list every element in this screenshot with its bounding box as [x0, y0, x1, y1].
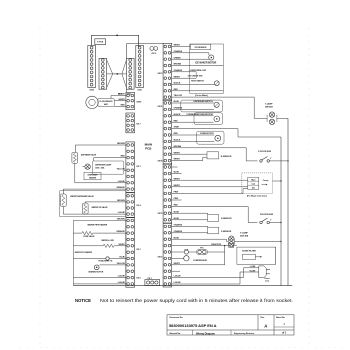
svg-text:Not to reinsert the power supp: Not to reinsert the power supply cord wi… — [100, 298, 293, 303]
wire WHITE flow sensor — [114, 99, 126, 101]
motor ice maker motor — [195, 55, 217, 65]
svg-text:DISPENSER: DISPENSER — [88, 175, 99, 177]
wire RED flow sensor — [114, 105, 126, 107]
svg-text:DISPENSER VALVE: DISPENSER VALVE — [81, 154, 97, 157]
resistor water in heater — [73, 244, 126, 247]
dispenser heater — [84, 172, 101, 180]
svg-text:WATER In S/W: WATER In S/W — [101, 239, 114, 242]
motor geared motor — [88, 265, 126, 274]
svg-text:HORIZONTAL S/W: HORIZONTAL S/W — [189, 69, 206, 72]
dispenser switch — [172, 100, 223, 112]
left spine wire colour labels — [116, 143, 125, 284]
svg-text:ORANGE: ORANGE — [174, 69, 183, 72]
label water in switch — [101, 239, 114, 242]
svg-text:FLOW SENSOR: FLOW SENSOR — [100, 101, 113, 103]
wire GRAY to f-door switch bus — [172, 129, 281, 137]
svg-text:F-LAMP: F-LAMP — [240, 232, 248, 235]
svg-text:DISPENSER SWITCH: DISPENSER SWITCH — [193, 101, 213, 103]
wire BROWN to f-door switch — [172, 148, 258, 161]
svg-text:GEARED MOTOR: GEARED MOTOR — [88, 270, 104, 273]
noise filter — [237, 247, 276, 264]
svg-text:CN31: CN31 — [137, 90, 141, 92]
svg-text:CONDENSER FAN MOTOR: CONDENSER FAN MOTOR — [186, 113, 213, 116]
wire ORANGE horizontal switch — [172, 71, 197, 73]
svg-text:DEFROST HEATER: DEFROST HEATER — [75, 251, 93, 254]
f-sensor — [172, 226, 232, 233]
svg-text:Rev.: Rev. — [261, 317, 266, 319]
svg-text:220V 2EA: 220V 2EA — [240, 235, 249, 238]
wire RED dispenser lamp feed — [94, 158, 126, 161]
d-sensor — [172, 213, 232, 221]
motor compressor — [172, 256, 208, 263]
solenoid water ice valve — [82, 203, 108, 214]
svg-text:PCB: PCB — [145, 147, 152, 151]
svg-text:HEATER: HEATER — [89, 176, 97, 179]
wire BROWN water ice valve feed — [85, 202, 126, 203]
wire harness bowtie AK1 to CN51 — [107, 60, 127, 88]
main pcb label — [145, 142, 153, 150]
heater group box — [73, 220, 126, 285]
svg-text:BLACK: BLACK — [174, 82, 181, 85]
switch r-door switch — [260, 214, 282, 224]
r-sensor — [172, 152, 232, 161]
svg-text:ORANGE: ORANGE — [116, 230, 125, 233]
wire WHITE ice sensor — [172, 46, 191, 48]
magic cool zone box — [242, 173, 282, 198]
svg-text:T-LAMP: T-LAMP — [265, 103, 273, 106]
svg-text:WATER DISPENSER VALVE: WATER DISPENSER VALVE — [70, 195, 94, 198]
wire L-BLUE water valves return — [63, 207, 126, 215]
svg-text:Cord: Cord — [265, 280, 269, 282]
label water pipe heater — [87, 223, 107, 226]
wire capacitor drop — [224, 245, 225, 265]
wire bus right outer — [287, 118, 289, 285]
wire BROWN dispenser valve feed — [75, 145, 126, 152]
label core valve — [83, 235, 95, 238]
wires to magic cool zone — [172, 180, 248, 193]
label CN6 — [136, 277, 141, 279]
wire RED to r-door switch — [172, 207, 258, 223]
wire stub PINK CN75 pin6 — [172, 199, 182, 201]
svg-text:ORANGE: ORANGE — [174, 230, 183, 233]
label ice check switch — [188, 75, 203, 77]
svg-text:WATER PIPE HEATER: WATER PIPE HEATER — [87, 223, 107, 226]
svg-text:BLACK: BLACK — [174, 113, 181, 116]
wire L-LINE — [244, 266, 259, 268]
wire bus right inner — [280, 137, 282, 286]
t-lamp — [254, 103, 288, 125]
wire YELLOW lamp feed — [172, 97, 255, 118]
svg-text:WATER ICE VALVE: WATER ICE VALVE — [92, 206, 109, 209]
connector CN2 on main pcb — [126, 218, 135, 288]
wire L-BLUE heater return 1 — [73, 277, 126, 279]
resistor water pipe heater — [73, 231, 126, 234]
svg-text:WHITE: WHITE — [119, 99, 126, 101]
overload protector OLP — [184, 250, 196, 255]
svg-text:GRAY: GRAY — [174, 126, 180, 129]
svg-text:Document No.: Document No. — [170, 316, 184, 319]
connector AK1 inner-left column — [99, 58, 122, 95]
svg-text:5830000133975 ASP EN A: 5830000133975 ASP EN A — [169, 323, 217, 328]
svg-text:A: A — [264, 324, 267, 329]
wire noise filter right drop — [275, 247, 277, 264]
svg-text:D-SENSOR: D-SENSOR — [221, 218, 232, 220]
label horizontal switch — [189, 69, 206, 72]
water valve group box — [60, 191, 126, 217]
wire WHITE ice check switch — [172, 72, 197, 78]
wire WHITE compressor return — [172, 264, 225, 266]
wire ORANGE ice maker motor — [172, 53, 209, 55]
power cord plug — [259, 266, 270, 282]
wire ORANGE water dispenser valve feed — [63, 189, 126, 194]
connector CN3 on main pcb — [126, 142, 142, 193]
ice maker assembly box — [190, 44, 224, 97]
wire CN51 to CN90 — [125, 89, 127, 92]
connector CN72 on main pcb — [157, 223, 171, 287]
motor r-fan motor — [172, 131, 224, 144]
svg-text:ICE MAKER MOTOR: ICE MAKER MOTOR — [195, 61, 217, 64]
connector CN1 — [145, 278, 160, 286]
motor condenser fan motor — [172, 113, 223, 125]
svg-text:BLACK: BLACK — [174, 139, 181, 142]
wire N-LINE — [244, 270, 259, 272]
title block — [167, 315, 294, 336]
wire GREEN ice maker motor — [172, 58, 209, 60]
front pcb label — [95, 39, 106, 45]
svg-text:(For Ice Maker): (For Ice Maker) — [195, 95, 208, 97]
connector CN75 on main pcb — [157, 164, 171, 223]
solenoid water dispenser valve — [60, 194, 94, 207]
wire BLACK flow sensor — [111, 93, 126, 99]
wire L-BLUE heater return 2 — [73, 283, 126, 285]
wire BROWN ice maker common — [172, 65, 224, 67]
svg-text:Wiring Diagram: Wiring Diagram — [196, 331, 216, 335]
svg-text:ORANGE: ORANGE — [174, 50, 183, 53]
svg-text:CORE VALVE: CORE VALVE — [83, 235, 95, 238]
solenoid dispenser valve — [72, 152, 97, 163]
svg-text:Compr: Compr — [263, 180, 269, 182]
svg-text:NOTICE: NOTICE — [75, 298, 91, 303]
dispenser lamp box — [93, 161, 124, 174]
connector CN90 (flow sensor) on main pcb — [126, 92, 142, 109]
lamp f-lamp — [226, 232, 281, 247]
wire dispenser valve return — [74, 163, 76, 182]
connector CN70 on main pcb — [157, 43, 171, 100]
svg-text:RED: RED — [121, 105, 126, 107]
flow sensor — [86, 96, 114, 108]
svg-text:CN 11: CN 11 — [151, 53, 156, 55]
right spine wire colour labels — [174, 45, 183, 285]
svg-text:ORANGE: ORANGE — [174, 224, 183, 227]
svg-text:TEST SWITCH: TEST SWITCH — [191, 81, 205, 83]
svg-text:15W x 1EA: 15W x 1EA — [95, 167, 105, 170]
svg-text:NOISE FILTER: NOISE FILTER — [242, 251, 256, 253]
notice text — [75, 298, 293, 303]
connector CN51 inner-right column — [126, 58, 134, 95]
connector CN11 2-pin — [150, 47, 158, 55]
svg-text:(For Magic Cool Zone): (For Magic Cool Zone) — [247, 195, 267, 197]
svg-text:ICE SENSOR: ICE SENSOR — [195, 47, 207, 49]
svg-text:F-PCB: F-PCB — [97, 42, 103, 44]
wire L-BLUE dispenser return — [75, 182, 126, 184]
label CN2 — [136, 249, 141, 251]
connector CN7 on main pcb — [126, 113, 142, 133]
wire BLUE f-lamp feed — [172, 239, 227, 241]
wire compressor run — [172, 251, 185, 253]
svg-text:Cool: Cool — [252, 183, 256, 185]
svg-text:F-SENSOR: F-SENSOR — [221, 231, 232, 233]
connector CN31 front-pcb outer-right column — [136, 46, 144, 92]
wire bottom rail — [74, 285, 292, 287]
label CN74 — [157, 160, 163, 163]
wire RED ice maker — [172, 90, 224, 92]
svg-text:R-DOOR S/W: R-DOOR S/W — [260, 214, 274, 216]
svg-text:Wiper: Wiper — [251, 179, 256, 181]
ptc relay — [196, 247, 224, 254]
svg-text:Sheet No.: Sheet No. — [276, 316, 286, 319]
wire stub CN72 pin8 — [172, 270, 180, 272]
lamp dispenser lamp — [82, 164, 112, 170]
connector CN30 front-pcb outer-left column — [88, 46, 96, 92]
svg-text:N-LINE: N-LINE — [250, 270, 256, 272]
svg-text:R-FAN MOTOR: R-FAN MOTOR — [200, 132, 214, 135]
wire top loop front-pcb to CN31 — [92, 34, 139, 47]
svg-text:20W 2EA: 20W 2EA — [265, 106, 273, 109]
wire CN31 to main pcb CN70 — [127, 44, 164, 59]
svg-text:ICE CHECK S/W: ICE CHECK S/W — [188, 75, 203, 77]
svg-text:ORANGE: ORANGE — [116, 186, 125, 189]
svg-text:ORANGE: ORANGE — [174, 107, 183, 110]
connector CN4 on main pcb — [126, 193, 142, 218]
fuse temp — [73, 257, 126, 263]
svg-text:BLACK: BLACK — [118, 93, 125, 96]
wire YELLOW dispenser lamp — [124, 169, 126, 171]
wire stub BLUE CN75 pin2 — [172, 173, 182, 175]
switch test switch — [191, 81, 219, 86]
wire stub CN75 pin1 — [172, 166, 178, 168]
svg-text:Engineering Revision: Engineering Revision — [234, 332, 255, 335]
connector CN76 on main pcb — [157, 100, 171, 164]
svg-text:F-DOOR S/W: F-DOOR S/W — [258, 151, 272, 153]
label defrost heater — [75, 251, 93, 254]
ice sensor — [190, 44, 211, 49]
svg-text:Material No.: Material No. — [170, 332, 182, 335]
svg-text:L-LINE: L-LINE — [250, 266, 256, 268]
wire L-BLUE mains 2 — [172, 272, 244, 284]
wire BLACK test switch — [172, 84, 215, 86]
svg-text:FUSE (TEMP 77): FUSE (TEMP 77) — [98, 260, 112, 262]
switch f-door switch — [258, 151, 289, 162]
svg-text:CN30: CN30 — [89, 90, 93, 92]
wire L-BLUE mains 1 — [172, 268, 244, 278]
svg-text:COMPRESSOR: COMPRESSOR — [193, 260, 207, 262]
capacitor running — [172, 243, 237, 248]
svg-text:DISPENSER LAMP: DISPENSER LAMP — [95, 164, 112, 167]
svg-text:R-SENSOR: R-SENSOR — [221, 156, 232, 158]
